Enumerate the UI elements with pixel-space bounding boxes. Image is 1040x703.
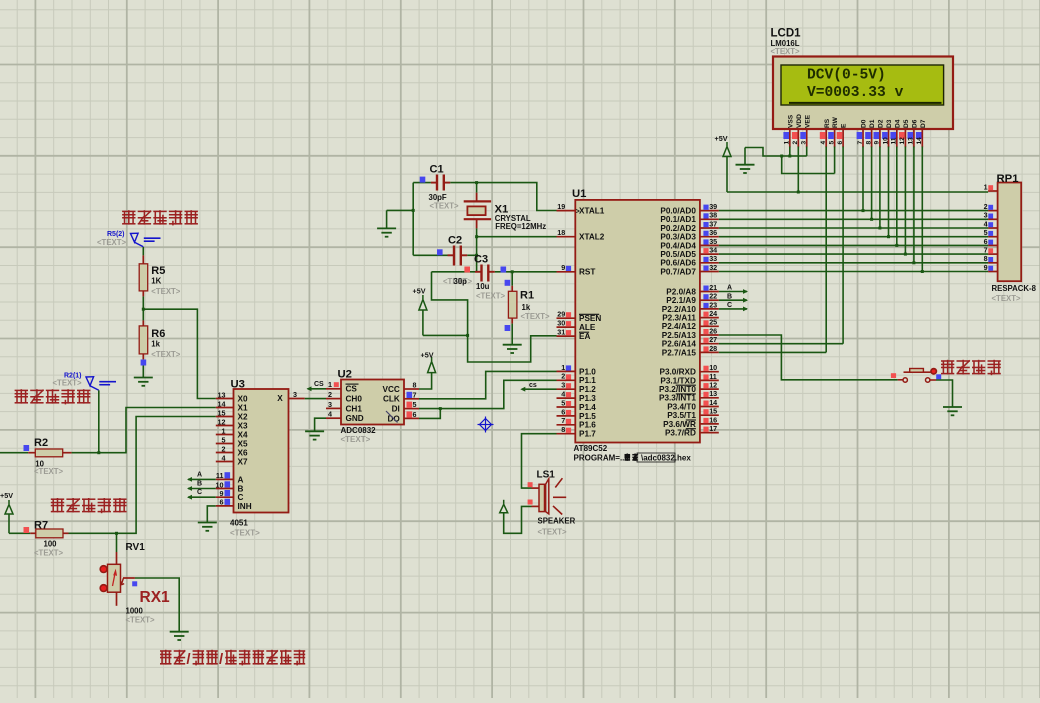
svg-text:P2.5/A13: P2.5/A13: [662, 331, 697, 340]
svg-text:39: 39: [709, 202, 717, 211]
svg-text:16: 16: [709, 415, 717, 424]
svg-text:R7: R7: [34, 519, 48, 531]
svg-text:<TEXT>: <TEXT>: [521, 312, 550, 321]
svg-text:C3: C3: [474, 254, 488, 266]
svg-text:DI: DI: [392, 405, 400, 414]
svg-text:B: B: [727, 293, 732, 300]
svg-text:P2.2/A10: P2.2/A10: [662, 305, 697, 314]
svg-text:ALE: ALE: [579, 323, 596, 332]
svg-text:A: A: [197, 471, 202, 478]
svg-text:LS1: LS1: [537, 469, 556, 480]
svg-text:XTAL2: XTAL2: [579, 233, 605, 242]
svg-text:D0: D0: [861, 119, 868, 128]
svg-text:<TEXT>: <TEXT>: [341, 435, 371, 444]
svg-text:5: 5: [561, 398, 565, 407]
svg-text:<TEXT>: <TEXT>: [230, 529, 260, 538]
svg-text:AT89C52: AT89C52: [574, 444, 608, 453]
svg-text:<TEXT>: <TEXT>: [34, 548, 63, 557]
svg-text:X2: X2: [238, 412, 248, 421]
svg-text:38: 38: [709, 211, 717, 220]
svg-text:37: 37: [709, 219, 717, 228]
svg-text:2: 2: [222, 445, 226, 454]
svg-text:X3: X3: [238, 421, 248, 430]
svg-text:P0.2/AD2: P0.2/AD2: [660, 224, 696, 233]
svg-text:X: X: [277, 394, 283, 403]
svg-text:2: 2: [792, 141, 799, 145]
svg-text:P0.1/AD1: P0.1/AD1: [660, 215, 696, 224]
svg-text:P1.2: P1.2: [579, 385, 596, 394]
svg-text:P2.6/A14: P2.6/A14: [662, 340, 697, 349]
svg-text:P3.0/RXD: P3.0/RXD: [659, 368, 695, 377]
svg-text:10: 10: [709, 363, 717, 372]
svg-text:11: 11: [891, 137, 898, 144]
svg-text:4: 4: [328, 410, 332, 419]
svg-text:1000: 1000: [126, 607, 144, 616]
svg-text:9: 9: [561, 263, 565, 272]
svg-text:X6: X6: [238, 448, 248, 457]
svg-text:R5: R5: [151, 265, 165, 277]
svg-text:P2.0/A8: P2.0/A8: [666, 287, 696, 296]
svg-text:14: 14: [218, 400, 226, 409]
svg-text:RX1: RX1: [140, 589, 171, 606]
svg-text:8: 8: [561, 425, 565, 434]
svg-text:X1: X1: [238, 403, 248, 412]
svg-text:+5V: +5V: [421, 351, 434, 360]
svg-text:3: 3: [984, 211, 988, 220]
svg-text:1: 1: [328, 380, 332, 389]
svg-text:D1: D1: [869, 119, 876, 128]
svg-text:X5: X5: [238, 439, 248, 448]
svg-text:3: 3: [801, 141, 808, 145]
svg-text:4: 4: [820, 141, 827, 145]
svg-text:15: 15: [709, 407, 717, 416]
svg-text:RP1: RP1: [997, 173, 1019, 185]
svg-text:19: 19: [557, 202, 565, 211]
svg-text:7: 7: [857, 141, 864, 145]
svg-text:24: 24: [709, 309, 717, 318]
svg-text:9: 9: [984, 263, 988, 272]
svg-text:36: 36: [709, 228, 717, 237]
svg-text:V=0003.33 v: V=0003.33 v: [807, 85, 904, 101]
svg-text:D3: D3: [886, 119, 893, 128]
svg-text:13: 13: [908, 137, 915, 145]
svg-text:P3.2/INT0: P3.2/INT0: [659, 385, 696, 394]
svg-text:23: 23: [709, 300, 717, 309]
svg-text:30: 30: [557, 319, 565, 328]
svg-text:U2: U2: [338, 369, 352, 381]
svg-text:9: 9: [220, 489, 224, 498]
svg-text:1k: 1k: [151, 340, 160, 349]
svg-text:7: 7: [984, 246, 988, 255]
svg-text:RST: RST: [579, 268, 595, 277]
svg-text:33: 33: [709, 254, 717, 263]
svg-text:EA: EA: [579, 332, 590, 341]
svg-text:4: 4: [222, 454, 226, 463]
svg-text:P3.4/T0: P3.4/T0: [667, 402, 696, 411]
svg-text:P0.5/AD5: P0.5/AD5: [660, 250, 696, 259]
svg-text:26: 26: [709, 326, 717, 335]
svg-text:P3.5/T1: P3.5/T1: [667, 411, 696, 420]
svg-text:R5(2): R5(2): [107, 231, 125, 238]
svg-text:GND: GND: [346, 414, 364, 423]
svg-text:X4: X4: [238, 430, 248, 439]
svg-text:R2: R2: [34, 437, 48, 449]
svg-text:P2.4/A12: P2.4/A12: [662, 322, 697, 331]
svg-text:27: 27: [709, 335, 717, 344]
svg-text:B: B: [238, 484, 244, 493]
svg-text:E: E: [841, 123, 848, 128]
svg-text:14: 14: [709, 398, 717, 407]
svg-text:R1: R1: [520, 290, 534, 302]
svg-text:SPEAKER: SPEAKER: [538, 517, 576, 526]
svg-text:4: 4: [561, 390, 565, 399]
svg-text:cs: cs: [529, 382, 537, 389]
svg-text:D2: D2: [878, 119, 885, 128]
svg-text:5: 5: [413, 400, 417, 409]
svg-text:<TEXT>: <TEXT>: [430, 202, 459, 211]
svg-text:<TEXT>: <TEXT>: [126, 616, 155, 625]
svg-text:P3.1/TXD: P3.1/TXD: [660, 376, 696, 385]
svg-text:<TEXT>: <TEXT>: [151, 287, 180, 296]
svg-text:1: 1: [561, 363, 565, 372]
svg-text:DCV(0-5V): DCV(0-5V): [807, 68, 886, 84]
svg-text:17: 17: [709, 424, 717, 433]
svg-text:P3.3/INT1: P3.3/INT1: [659, 394, 696, 403]
svg-text:D5: D5: [903, 119, 910, 128]
svg-text:VSS: VSS: [787, 114, 794, 128]
svg-text:P2.7/A15: P2.7/A15: [662, 348, 697, 357]
svg-text:7: 7: [413, 390, 417, 399]
svg-text:34: 34: [709, 246, 717, 255]
svg-text:1: 1: [784, 141, 791, 145]
svg-text:10u: 10u: [476, 282, 490, 291]
svg-text:CH0: CH0: [346, 395, 363, 404]
svg-text:C: C: [197, 489, 202, 496]
svg-text:P1.0: P1.0: [579, 367, 596, 376]
svg-text:28: 28: [709, 344, 717, 353]
svg-text:D4: D4: [894, 119, 901, 128]
svg-text:VDD: VDD: [796, 114, 803, 128]
svg-text:1: 1: [222, 427, 226, 436]
svg-text:8: 8: [413, 381, 417, 390]
svg-text:5: 5: [828, 141, 835, 145]
svg-text:1k: 1k: [522, 303, 531, 312]
svg-text:P1.5: P1.5: [579, 412, 596, 421]
svg-text:VEE: VEE: [804, 114, 811, 128]
svg-text:C1: C1: [430, 164, 444, 176]
svg-text:U1: U1: [572, 188, 586, 200]
svg-text:31: 31: [557, 328, 565, 337]
svg-text:21: 21: [709, 283, 717, 292]
svg-text:2: 2: [984, 202, 988, 211]
svg-text:CH1: CH1: [346, 404, 363, 413]
svg-text:P0.0/AD0: P0.0/AD0: [660, 207, 696, 216]
svg-text:<TEXT>: <TEXT>: [97, 238, 126, 247]
svg-text:P0.7/AD7: P0.7/AD7: [660, 267, 696, 276]
svg-text:A: A: [727, 285, 732, 292]
svg-text:14: 14: [916, 137, 923, 145]
svg-text:1K: 1K: [151, 277, 161, 286]
svg-text:30p: 30p: [454, 277, 468, 286]
svg-text:18: 18: [557, 228, 565, 237]
svg-text:29: 29: [557, 310, 565, 319]
svg-text:3: 3: [293, 390, 297, 399]
svg-text:3: 3: [328, 400, 332, 409]
svg-text:6: 6: [561, 407, 565, 416]
svg-text:INH: INH: [238, 502, 252, 511]
svg-text:RESPACK-8: RESPACK-8: [992, 284, 1037, 293]
svg-text:+5V: +5V: [715, 134, 728, 143]
svg-text:RW: RW: [832, 116, 839, 128]
svg-text:\adc0832.hex: \adc0832.hex: [641, 454, 691, 463]
svg-text:13: 13: [709, 389, 717, 398]
svg-text:<TEXT>: <TEXT>: [53, 379, 82, 388]
svg-text:P1.7: P1.7: [579, 430, 596, 439]
svg-text:C: C: [238, 493, 244, 502]
svg-text:8: 8: [984, 254, 988, 263]
svg-text:10: 10: [882, 137, 889, 145]
svg-text:RV1: RV1: [126, 542, 146, 553]
svg-text:X0: X0: [238, 394, 248, 403]
svg-text:P3.6/WR: P3.6/WR: [663, 420, 696, 429]
svg-text:/: /: [186, 651, 191, 668]
svg-text:P2.1/A9: P2.1/A9: [666, 296, 696, 305]
svg-text:4: 4: [984, 219, 988, 228]
svg-text:4051: 4051: [230, 519, 248, 528]
svg-text:U3: U3: [231, 378, 245, 390]
svg-text:CS: CS: [314, 381, 324, 388]
svg-text:6: 6: [220, 498, 224, 507]
svg-text:<TEXT>: <TEXT>: [538, 528, 567, 537]
svg-text:P1.3: P1.3: [579, 394, 596, 403]
svg-text:22: 22: [709, 292, 717, 301]
svg-text:5: 5: [222, 436, 226, 445]
svg-text:5: 5: [984, 228, 988, 237]
svg-text:P0.4/AD4: P0.4/AD4: [660, 241, 696, 250]
svg-text:1: 1: [984, 182, 988, 191]
svg-text:P1.1: P1.1: [579, 376, 596, 385]
svg-text:P1.4: P1.4: [579, 403, 596, 412]
svg-text:11: 11: [216, 471, 224, 480]
svg-text:35: 35: [709, 237, 717, 246]
svg-text:A: A: [238, 475, 244, 484]
svg-text:/: /: [219, 651, 224, 668]
svg-text:12: 12: [218, 418, 226, 427]
svg-text:7: 7: [561, 416, 565, 425]
svg-text:15: 15: [218, 409, 226, 418]
svg-text:VCC: VCC: [383, 385, 400, 394]
svg-text:100: 100: [44, 540, 58, 549]
svg-text:C: C: [727, 302, 732, 309]
svg-text:R6: R6: [151, 328, 165, 340]
svg-text:P0.3/AD3: P0.3/AD3: [660, 233, 696, 242]
svg-text:PROGRAM=..\: PROGRAM=..\: [574, 454, 628, 463]
svg-text:32: 32: [709, 263, 717, 272]
svg-text:LCD1: LCD1: [771, 28, 802, 40]
svg-text:6: 6: [837, 141, 844, 145]
svg-text:3: 3: [561, 381, 565, 390]
svg-text:9: 9: [874, 141, 881, 145]
svg-text:25: 25: [709, 318, 717, 327]
svg-text:<TEXT>: <TEXT>: [151, 350, 180, 359]
svg-text:X7: X7: [238, 457, 248, 466]
svg-text:B: B: [197, 481, 202, 488]
svg-text:<TEXT>: <TEXT>: [476, 292, 505, 301]
svg-text:11: 11: [709, 372, 717, 381]
svg-text:>: >: [576, 208, 580, 215]
svg-text:<TEXT>: <TEXT>: [771, 47, 800, 56]
svg-text:XTAL1: XTAL1: [579, 207, 605, 216]
svg-text:P3.7/RD: P3.7/RD: [665, 429, 696, 438]
svg-text:+5V: +5V: [0, 491, 13, 500]
svg-text:P0.6/AD6: P0.6/AD6: [660, 259, 696, 268]
svg-text:+5V: +5V: [413, 287, 426, 296]
svg-text:10: 10: [216, 480, 224, 489]
svg-text:8: 8: [865, 141, 872, 145]
svg-text:PSEN: PSEN: [579, 314, 601, 323]
svg-text:P2.3/A11: P2.3/A11: [662, 314, 696, 323]
svg-text:CS: CS: [346, 385, 358, 394]
svg-text:ADC0832: ADC0832: [341, 426, 377, 435]
svg-text:RS: RS: [824, 118, 831, 128]
svg-text:<TEXT>: <TEXT>: [34, 467, 63, 476]
svg-text:2: 2: [561, 372, 565, 381]
svg-text:P1.6: P1.6: [579, 421, 596, 430]
svg-text:6: 6: [984, 237, 988, 246]
svg-text:CLK: CLK: [383, 395, 400, 404]
svg-text:FREQ=12MHz: FREQ=12MHz: [495, 222, 546, 231]
svg-text:<TEXT>: <TEXT>: [992, 294, 1021, 303]
svg-text:2: 2: [328, 390, 332, 399]
svg-text:12: 12: [899, 137, 906, 145]
svg-text:12: 12: [709, 381, 717, 390]
svg-text:D6: D6: [912, 119, 919, 128]
svg-text:D7: D7: [920, 119, 927, 128]
svg-text:C2: C2: [448, 235, 462, 247]
svg-text:13: 13: [218, 391, 226, 400]
svg-text:6: 6: [413, 410, 417, 419]
